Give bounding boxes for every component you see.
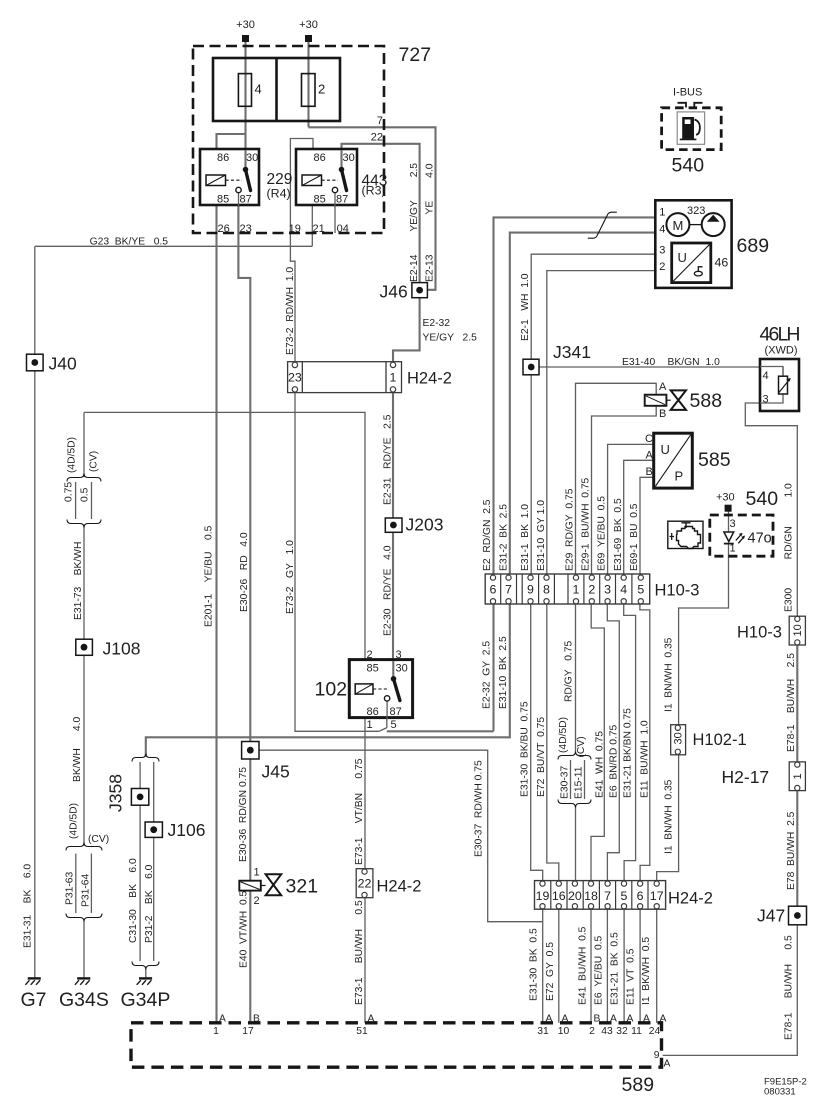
I-BUS connection ticks [678, 103, 703, 108]
svg-text:589: 589 [622, 1074, 655, 1096]
svg-text:E31-40: E31-40 [622, 357, 655, 368]
junction J40 [27, 354, 44, 371]
wire E41 WH 0.75 : H10-3 pin 2 to H24-2 pin 18 [591, 604, 604, 880]
svg-text:J106: J106 [168, 820, 206, 840]
wire I1 BK/WH 0.5 : H24-2 pin 17 to 589 pin 24 [656, 909, 658, 1023]
svg-text:86: 86 [314, 152, 326, 164]
svg-text:E2-31 RD/YE 2.5: E2-31 RD/YE 2.5 [383, 414, 394, 505]
svg-text:G23 BK/YE 0.5: G23 BK/YE 0.5 [90, 237, 169, 248]
svg-text:4: 4 [620, 583, 627, 597]
svg-text:31: 31 [537, 1026, 549, 1037]
wire BU/WH 2.5 : H10-3 pin 10 to H2-17 pin 1 [796, 645, 798, 762]
svg-text:J47: J47 [757, 906, 785, 926]
svg-text:51: 51 [356, 1026, 368, 1037]
svg-text:A: A [660, 1014, 667, 1025]
svg-text:2: 2 [367, 649, 373, 661]
wire E73-2 GY 1.0 : H24-2 pin 23 down, right to 102 pin 5 and H10-3 pin 6 [295, 392, 379, 731]
svg-text:1: 1 [730, 543, 736, 555]
svg-text:B: B [253, 1014, 260, 1025]
wire E31-30 BK/BU 0.75 : H10-3 pin 9 to H24-2 pin 19 [531, 604, 543, 880]
svg-text:E2-13 YE 4: E2-13 YE 4.0 [425, 163, 436, 282]
svg-text:E69 YE/BU 0.5: E69 YE/BU 0.5 [597, 496, 608, 571]
pressure sensor 585 [654, 433, 693, 488]
svg-text:E78-1 BU/WH 2.5: E78-1 BU/WH 2.5 [786, 653, 797, 752]
svg-text:E201-1 YE/BU 0.5: E201-1 YE/BU 0.5 [204, 525, 215, 627]
svg-text:E2-1 WH 1.0: E2-1 WH 1.0 [520, 273, 531, 341]
svg-text:E30-37 RD/WH 0.75: E30-37 RD/WH 0.75 [474, 760, 485, 857]
svg-text:J341: J341 [553, 342, 591, 362]
svg-text:3: 3 [604, 583, 611, 597]
svg-text:U: U [661, 442, 670, 457]
svg-text:+30: +30 [236, 19, 255, 31]
wire G23 BK/YE 0.5 ground line [35, 245, 313, 247]
wire P31-63 [75, 854, 77, 914]
svg-text:(CV): (CV) [576, 736, 587, 757]
svg-text:3: 3 [730, 518, 736, 530]
brace pair for E30-37/E15-11 alternatives [558, 752, 591, 760]
svg-text:5: 5 [637, 583, 644, 597]
svg-text:2: 2 [254, 895, 260, 907]
wire 04 : relay R3 pin 87 stub [334, 193, 336, 234]
junction J46 [412, 283, 428, 298]
wire horizontal feed to 102 pin 2 [84, 412, 365, 659]
svg-text:E31-21 BK 0.5: E31-21 BK 0.5 [610, 932, 621, 1005]
svg-text:J203: J203 [406, 515, 444, 535]
svg-text:E41 BU/WH 0.5: E41 BU/WH 0.5 [578, 926, 589, 1005]
svg-text:A: A [646, 450, 654, 462]
brace pair for C31-30/P31-2 split to G34P [132, 754, 159, 762]
wire E40 VT/WH 0.5 : valve 321 to 589 pin 17 [249, 891, 251, 1023]
junction J106 [145, 822, 162, 837]
wire E78 BU/WH 2.5 : H2-17 to J47 [796, 791, 798, 907]
wire E6 YE/BU 0.5 : pin 7 to 589 pin 43 [606, 909, 608, 1023]
fuse 2 [302, 74, 316, 107]
wire E2-30 RD/YE 4.0 : J203 to 102 pin 3 [392, 532, 394, 659]
svg-text:1.0: 1.0 [706, 357, 721, 368]
svg-text:J358: J358 [106, 774, 126, 812]
svg-text:E31-21 BK/BN 0.75: E31-21 BK/BN 0.75 [623, 708, 634, 798]
svg-text:10: 10 [792, 624, 804, 636]
svg-text:23: 23 [288, 371, 302, 385]
svg-text:9: 9 [654, 1050, 660, 1061]
svg-text:585: 585 [698, 449, 731, 471]
connector H10-3 main strip [485, 574, 650, 604]
wire 23 / E30-26 RD 4.0 : relay R4 pin 87 down to J45 [238, 193, 250, 742]
dashed box 540 I-BUS fuel gauge [662, 108, 722, 150]
svg-text:+30: +30 [299, 19, 318, 31]
svg-text:23: 23 [240, 223, 252, 235]
svg-text:19: 19 [536, 889, 550, 903]
svg-text:E2 RD/GN 2.5: E2 RD/GN 2.5 [482, 499, 493, 571]
wire 7 / E2-13 YE 4.0 : fuse 2 to J46 [309, 127, 436, 289]
svg-text:(4D/5D): (4D/5D) [67, 437, 78, 473]
svg-text:RD/GY 0.75: RD/GY 0.75 [564, 640, 575, 702]
svg-text:G34S: G34S [59, 989, 109, 1011]
svg-text:J108: J108 [103, 639, 141, 659]
svg-text:I-BUS: I-BUS [673, 87, 702, 99]
svg-text:E31-1 BK 1.0: E31-1 BK 1.0 [520, 504, 531, 571]
brace pair for P31-63/P31-64 split to G34S [66, 843, 102, 851]
wire 689 pin 4 / E31-2 BK 2.5 to H10-3 pin 7 [510, 233, 656, 577]
svg-text:E6 BN/RD 0.75: E6 BN/RD 0.75 [609, 724, 620, 798]
junction J341 [523, 359, 539, 375]
connector H24-2 top (pins 23 and 1) [288, 362, 402, 393]
relay 443 (R3) [296, 149, 357, 205]
svg-text:87: 87 [336, 194, 348, 206]
wire E30-36 RD/GN 0.75 : J45 to valve 321 [249, 759, 251, 881]
wire C31-30 BK 6.0 via J358 [139, 762, 141, 789]
svg-text:30: 30 [343, 152, 355, 164]
svg-text:30: 30 [673, 732, 685, 744]
svg-text:E15-11: E15-11 [574, 766, 585, 799]
wire 689 pin 3 / E2-1 WH 1.0 to J341 and E31-1 BK 1.0 to H10-3 pin 9 [531, 254, 655, 359]
component 689 fuel pump unit [655, 200, 731, 288]
svg-text:J46: J46 [380, 282, 408, 302]
wire branch fuse4 to relay R4 pin 86 [217, 134, 246, 149]
small pump glyph [694, 271, 702, 276]
svg-text:229: 229 [267, 171, 293, 188]
svg-text:E73-1 VT/BN 0.75: E73-1 VT/BN 0.75 [354, 758, 365, 865]
wire 21 : relay R3 pin 85 to ground line G23 [311, 205, 313, 246]
svg-text:17: 17 [650, 889, 664, 903]
svg-text:7: 7 [377, 115, 383, 127]
connector H24-2 pin 22 [356, 869, 373, 898]
svg-text:46LH: 46LH [760, 324, 801, 346]
wire E11 BU/WH 1.0 : H10-3 pin 5 to H24-2 pin 6 [640, 604, 650, 880]
svg-text:11: 11 [631, 1026, 642, 1037]
svg-text:J40: J40 [49, 354, 77, 374]
svg-text:87: 87 [240, 194, 252, 206]
svg-text:P31-63: P31-63 [65, 872, 76, 905]
svg-text:H10-3: H10-3 [737, 624, 782, 642]
wire 585 pin A / E31-69 BK 0.5 to H10-3 pin 4 [624, 460, 654, 577]
svg-text:2: 2 [318, 82, 325, 97]
svg-text:86: 86 [217, 152, 229, 164]
svg-text:H24-2: H24-2 [377, 878, 422, 896]
+30 terminal for LED 540 [725, 505, 732, 512]
svg-text:9: 9 [527, 583, 534, 597]
wire E2-32 GY 2.5 : H10-3 pin 6 down to junction [492, 604, 494, 731]
svg-text:J45: J45 [262, 762, 290, 782]
svg-text:(4D/5D): (4D/5D) [69, 803, 80, 839]
svg-text:1: 1 [254, 867, 260, 879]
svg-text:E31-10 BK 2.5: E31-10 BK 2.5 [498, 636, 509, 709]
svg-text:H102-1: H102-1 [693, 731, 747, 749]
svg-text:540: 540 [746, 488, 779, 510]
svg-text:5: 5 [621, 889, 628, 903]
svg-text:4: 4 [659, 224, 665, 236]
svg-text:P31-64: P31-64 [81, 874, 92, 907]
svg-text:P31-2 BK 6.0: P31-2 BK 6.0 [144, 864, 155, 943]
svg-text:G34P: G34P [121, 989, 171, 1011]
svg-text:H2-17: H2-17 [722, 767, 770, 787]
svg-text:E29 RD/GY 0.75: E29 RD/GY 0.75 [565, 488, 576, 571]
svg-text:P: P [675, 469, 684, 484]
svg-text:21: 21 [313, 223, 325, 235]
wire 689 pin 1 / E2 RD/GN 2.5 to H10-3 pin 6 [494, 217, 656, 577]
dashed box 540 LED [710, 515, 773, 556]
wire 585 pin C / E69 YE/BU 0.5 to H10-3 pin 3 [608, 444, 654, 577]
svg-text:E78 BU/WH 2.5: E78 BU/WH 2.5 [786, 811, 797, 890]
fuel pump icon [682, 117, 694, 139]
wire E41 BU/WH 0.5 : pin 18 to 589 pin 2 [590, 909, 592, 1023]
svg-text:E11 VT 0.5: E11 VT 0.5 [626, 948, 637, 1005]
svg-text:85: 85 [367, 663, 379, 675]
svg-text:4: 4 [763, 370, 769, 382]
wire E31-40 BK/GN 1.0 : J341 to 46LH [539, 367, 783, 376]
wire E31-21 BK/BN 0.75 : H10-3 pin 4 to H24-2 pin 5 [624, 604, 636, 880]
svg-text:E31-10 GY 1.0: E31-10 GY 1.0 [536, 500, 547, 571]
junction J203 [385, 518, 402, 532]
connector H102-1 pin 30 [671, 725, 686, 755]
svg-text:BK/GN: BK/GN [668, 357, 700, 368]
wire E2-32 YE/GY 2.5 : J46 down to H24-2 pin 1 [393, 298, 420, 362]
svg-text:E6 YE/BU 0.5: E6 YE/BU 0.5 [594, 935, 605, 1005]
svg-text:85: 85 [217, 194, 229, 206]
svg-text:E31-30 BK/BU 0.75: E31-30 BK/BU 0.75 [520, 701, 531, 797]
wire BK/WH 4.0 : J108 down to G34S split [83, 655, 85, 845]
junction J47 [789, 906, 807, 925]
svg-text:0.5: 0.5 [80, 487, 91, 502]
wire I1 BN/WH 0.35 : H102-1 down to H24-2 pin 17 [657, 755, 679, 881]
relay 229 (R4) [200, 149, 259, 205]
svg-text:A: A [664, 1059, 671, 1070]
wire +30 feed to fuse 4 and relay R4 pin 30 [244, 42, 246, 170]
svg-text:E40 VT/WH 0.5: E40 VT/WH 0.5 [239, 890, 250, 968]
ground G34S [75, 978, 90, 984]
svg-text:16: 16 [552, 889, 566, 903]
svg-text:E31-31 BK 6.0: E31-31 BK 6.0 [23, 864, 34, 948]
wire P31-64 [90, 854, 92, 914]
ground G34P [137, 978, 152, 984]
resistor 46LH (XWD) [760, 359, 799, 411]
svg-text:321: 321 [286, 876, 319, 898]
svg-text:(CV): (CV) [89, 451, 100, 472]
svg-text:(4D/5D): (4D/5D) [558, 717, 569, 753]
svg-text:B: B [659, 408, 666, 420]
svg-text:4: 4 [255, 82, 262, 97]
svg-text:6: 6 [490, 583, 497, 597]
svg-text:B: B [594, 1014, 601, 1025]
fuel level sender U box 46 [672, 243, 711, 283]
wire 588 pin A / E29 RD/GY 0.75 to H10-3 pin 1 [576, 383, 657, 577]
svg-text:04: 04 [337, 223, 349, 235]
svg-text:43: 43 [601, 1026, 613, 1037]
wire P31-2 BK 6.0 via J106 [153, 762, 155, 822]
svg-text:E31-2 BK 2.5: E31-2 BK 2.5 [499, 504, 510, 571]
junction J108 [76, 639, 93, 655]
svg-text:0.75: 0.75 [64, 482, 75, 502]
motor M circle [666, 213, 689, 236]
svg-text:E31-69 BK 0.5: E31-69 BK 0.5 [613, 498, 624, 571]
connector H10-3 pin 10 [789, 616, 805, 645]
svg-text:87: 87 [390, 706, 402, 718]
junction J358 [131, 789, 148, 806]
svg-text:86: 86 [367, 706, 379, 718]
svg-text:47o: 47o [748, 531, 772, 547]
wire E31-21 BK 0.5 : pin 5 to 589 pin 32 [623, 909, 625, 1023]
wire 46LH pin 3 loop to right side E300 RD/GN 1.0 [745, 394, 797, 616]
dashed box 589 control module [131, 1023, 662, 1067]
svg-text:20: 20 [568, 889, 582, 903]
svg-text:I1 BN/WH 0.35: I1 BN/WH 0.35 [664, 779, 675, 854]
wire to ground G34S [83, 921, 85, 978]
svg-text:E30-36 RD/GN 0.75: E30-36 RD/GN 0.75 [238, 767, 249, 862]
svg-text:1: 1 [390, 371, 397, 385]
svg-text:E30-37: E30-37 [560, 766, 571, 799]
wire E31-30 BK 0.5 : H24-2 pin 19 to 589 pin 31 [542, 909, 544, 1023]
svg-text:2: 2 [659, 261, 665, 273]
svg-text:H24-2: H24-2 [407, 370, 452, 388]
wire 26 / E201-1 YE/BU 0.5 : relay R4 pin 85 down to 589 pin 1 [215, 205, 217, 1023]
svg-text:M: M [673, 218, 684, 233]
svg-text:3: 3 [763, 394, 769, 406]
svg-text:E31-30 BK 0.5: E31-30 BK 0.5 [529, 928, 540, 1001]
svg-text:1: 1 [573, 583, 580, 597]
engine icon box [668, 521, 703, 548]
wire 22 / E2-14 YE/GY 2.5 : relay R3 pin 30 to J46 [342, 144, 420, 283]
svg-text:10: 10 [558, 1026, 570, 1037]
svg-text:5: 5 [391, 719, 397, 731]
svg-text:YE/GY 2.5: YE/GY 2.5 [423, 333, 478, 344]
svg-text:G7: G7 [21, 989, 47, 1011]
svg-text:E29-1 BU/WH 0.75: E29-1 BU/WH 0.75 [581, 477, 592, 571]
wire E73-1 BU/WH 0.5 : pin 22 down to 589 pin 51 [364, 898, 366, 1023]
svg-text:A: A [546, 1014, 553, 1025]
wire E6 BN/RD 0.75 : H10-3 pin 3 to H24-2 pin 7 [607, 604, 619, 880]
brace pair for 0.75/0.5 alternatives at x84 [67, 474, 101, 482]
twisted pair slash mark [588, 212, 617, 238]
svg-text:E2-32 GY 2.5: E2-32 GY 2.5 [482, 641, 493, 709]
svg-text:46: 46 [715, 256, 729, 270]
svg-text:I1 BK/WH 0.5: I1 BK/WH 0.5 [641, 937, 652, 1005]
svg-text:6: 6 [637, 889, 644, 903]
ground G7 [25, 978, 40, 984]
svg-text:323: 323 [687, 205, 705, 217]
svg-text:E30-26 RD 4.0: E30-26 RD 4.0 [239, 532, 250, 612]
svg-text:BK/WH 4.0: BK/WH 4.0 [72, 716, 83, 782]
svg-text:E73-1 BU/WH 0.5: E73-1 BU/WH 0.5 [354, 900, 365, 1005]
svg-text:E78-1 BU/WH 0.5: E78-1 BU/WH 0.5 [784, 935, 795, 1040]
svg-text:E300 RD/GN 1: E300 RD/GN 1.0 [784, 483, 795, 612]
wire 689 pin 2 / E31-10 GY 1.0 to H10-3 pin 8 [547, 271, 656, 577]
svg-text:2: 2 [588, 583, 595, 597]
svg-text:3: 3 [659, 244, 665, 256]
wire 585 pin B / E69-1 BU 0.5 to H10-3 pin 5 [640, 477, 654, 577]
connector H2-17 pin 1 [789, 762, 805, 791]
svg-text:(XWD): (XWD) [765, 345, 798, 357]
svg-text:(CV): (CV) [88, 834, 109, 845]
svg-text:I1 BN/WH 0.35: I1 BN/WH 0.35 [664, 637, 675, 712]
svg-text:E11 BU/WH 1.0: E11 BU/WH 1.0 [640, 720, 651, 798]
svg-text:22: 22 [358, 877, 372, 891]
wire x84 : J108 branch upper part with alternatives 0.75/0.5 [83, 412, 85, 477]
svg-text:3: 3 [396, 649, 402, 661]
svg-text:E73-2 RD/WH 1.0: E73-2 RD/WH 1.0 [285, 267, 296, 355]
svg-text:1: 1 [367, 719, 373, 731]
svg-text:B: B [646, 466, 653, 478]
svg-text:E72 BU/VT 0.75: E72 BU/VT 0.75 [536, 717, 547, 797]
wire to ground G34P [145, 969, 147, 978]
pump circle 323 [702, 213, 725, 236]
+30 terminal 2 [305, 35, 312, 42]
svg-text:1: 1 [213, 1026, 219, 1037]
svg-text:17: 17 [242, 1026, 254, 1037]
wire E78-1 BU/WH 0.5 : J47 down to 589 pin 9 [663, 925, 798, 1056]
svg-text:E2-32: E2-32 [423, 318, 451, 329]
wire +30 through LED 540 down to H102-1 [728, 512, 730, 533]
dashed box 727 relay holder [193, 46, 384, 233]
svg-text:A: A [627, 1014, 634, 1025]
wire 588 pin B / E29-1 BU/WH 0.75 to H10-3 pin 2 [592, 406, 657, 577]
svg-text:C: C [645, 433, 653, 445]
junction J45 [242, 742, 259, 760]
svg-text:E2-30 RD/YE 4.0: E2-30 RD/YE 4.0 [383, 545, 394, 636]
svg-text:C31-30 BK 6.0: C31-30 BK 6.0 [128, 858, 139, 943]
svg-text:85: 85 [314, 194, 326, 206]
svg-text:2: 2 [589, 1026, 595, 1037]
wire E11 VT 0.5 : pin 6 to 589 pin 11 [639, 909, 641, 1023]
svg-text:540: 540 [672, 155, 705, 177]
wire H10-3 pin 1 to H24-2 pin 20 with E30-37/E15-11 alternatives [575, 604, 577, 754]
svg-text:E31-73 BK/WH: E31-73 BK/WH [73, 542, 84, 620]
svg-text:080331: 080331 [764, 1087, 796, 1098]
svg-text:7: 7 [505, 583, 512, 597]
svg-text:102: 102 [315, 679, 348, 701]
wire E31-10 BK 2.5 : H10-3 pin 7 left to G34P split [146, 604, 510, 756]
wire E2-31 RD/YE 2.5 : H24-2 pin 1 to J203 [392, 392, 394, 518]
svg-text:A: A [562, 1014, 569, 1025]
svg-text:E73-2 GY 1.0: E73-2 GY 1.0 [285, 540, 296, 614]
fuse box [213, 58, 340, 121]
wire 19 / E73-2 RD/WH 1.0 : relay R3 pin 86 down to H24-2 pin 23 [290, 139, 313, 363]
connector H24-2 bottom strip [535, 881, 666, 910]
valve 321 [239, 881, 260, 891]
wire E72 BU/VT 0.75 : H10-3 pin 8 to H24-2 pin 16 [547, 604, 559, 880]
svg-text:30: 30 [246, 152, 258, 164]
wire E72 GY 0.5 : pin 16 to 589 pin 10 [558, 909, 560, 1023]
svg-text:8: 8 [543, 583, 550, 597]
svg-text:H10-3: H10-3 [655, 582, 700, 600]
svg-text:7: 7 [604, 889, 611, 903]
svg-text:727: 727 [399, 44, 432, 66]
svg-text:689: 689 [737, 235, 770, 257]
svg-text:22: 22 [371, 132, 383, 144]
relay 102 [349, 660, 412, 718]
svg-text:A: A [659, 381, 667, 393]
svg-text:E72 GY 0.5: E72 GY 0.5 [545, 942, 556, 1001]
valve 588 [645, 395, 667, 406]
svg-text:E2-14 YE/GY 2.5: E2-14 YE/GY 2.5 [409, 163, 420, 282]
svg-text:30: 30 [396, 663, 408, 675]
svg-text:E41 WH 0.75: E41 WH 0.75 [595, 731, 606, 798]
svg-text:26: 26 [218, 223, 230, 235]
wire E73-1 VT/BN 0.75 : 102 pin 1 down to H24-2 pin 22 [364, 718, 366, 869]
fuse 4 [238, 74, 251, 107]
LED diode 47o [724, 532, 734, 542]
svg-text:(R3): (R3) [362, 184, 386, 198]
wire +30 feed to fuse 2 [307, 42, 309, 127]
+30 terminal 1 [242, 35, 249, 42]
svg-text:A: A [219, 1014, 226, 1025]
svg-text:24: 24 [649, 1026, 661, 1037]
svg-text:U: U [678, 250, 687, 265]
svg-text:H24-2: H24-2 [668, 890, 713, 908]
svg-text:A: A [610, 1014, 617, 1025]
svg-text:(R4): (R4) [267, 187, 291, 201]
svg-text:A: A [643, 1014, 650, 1025]
svg-text:19: 19 [289, 223, 301, 235]
